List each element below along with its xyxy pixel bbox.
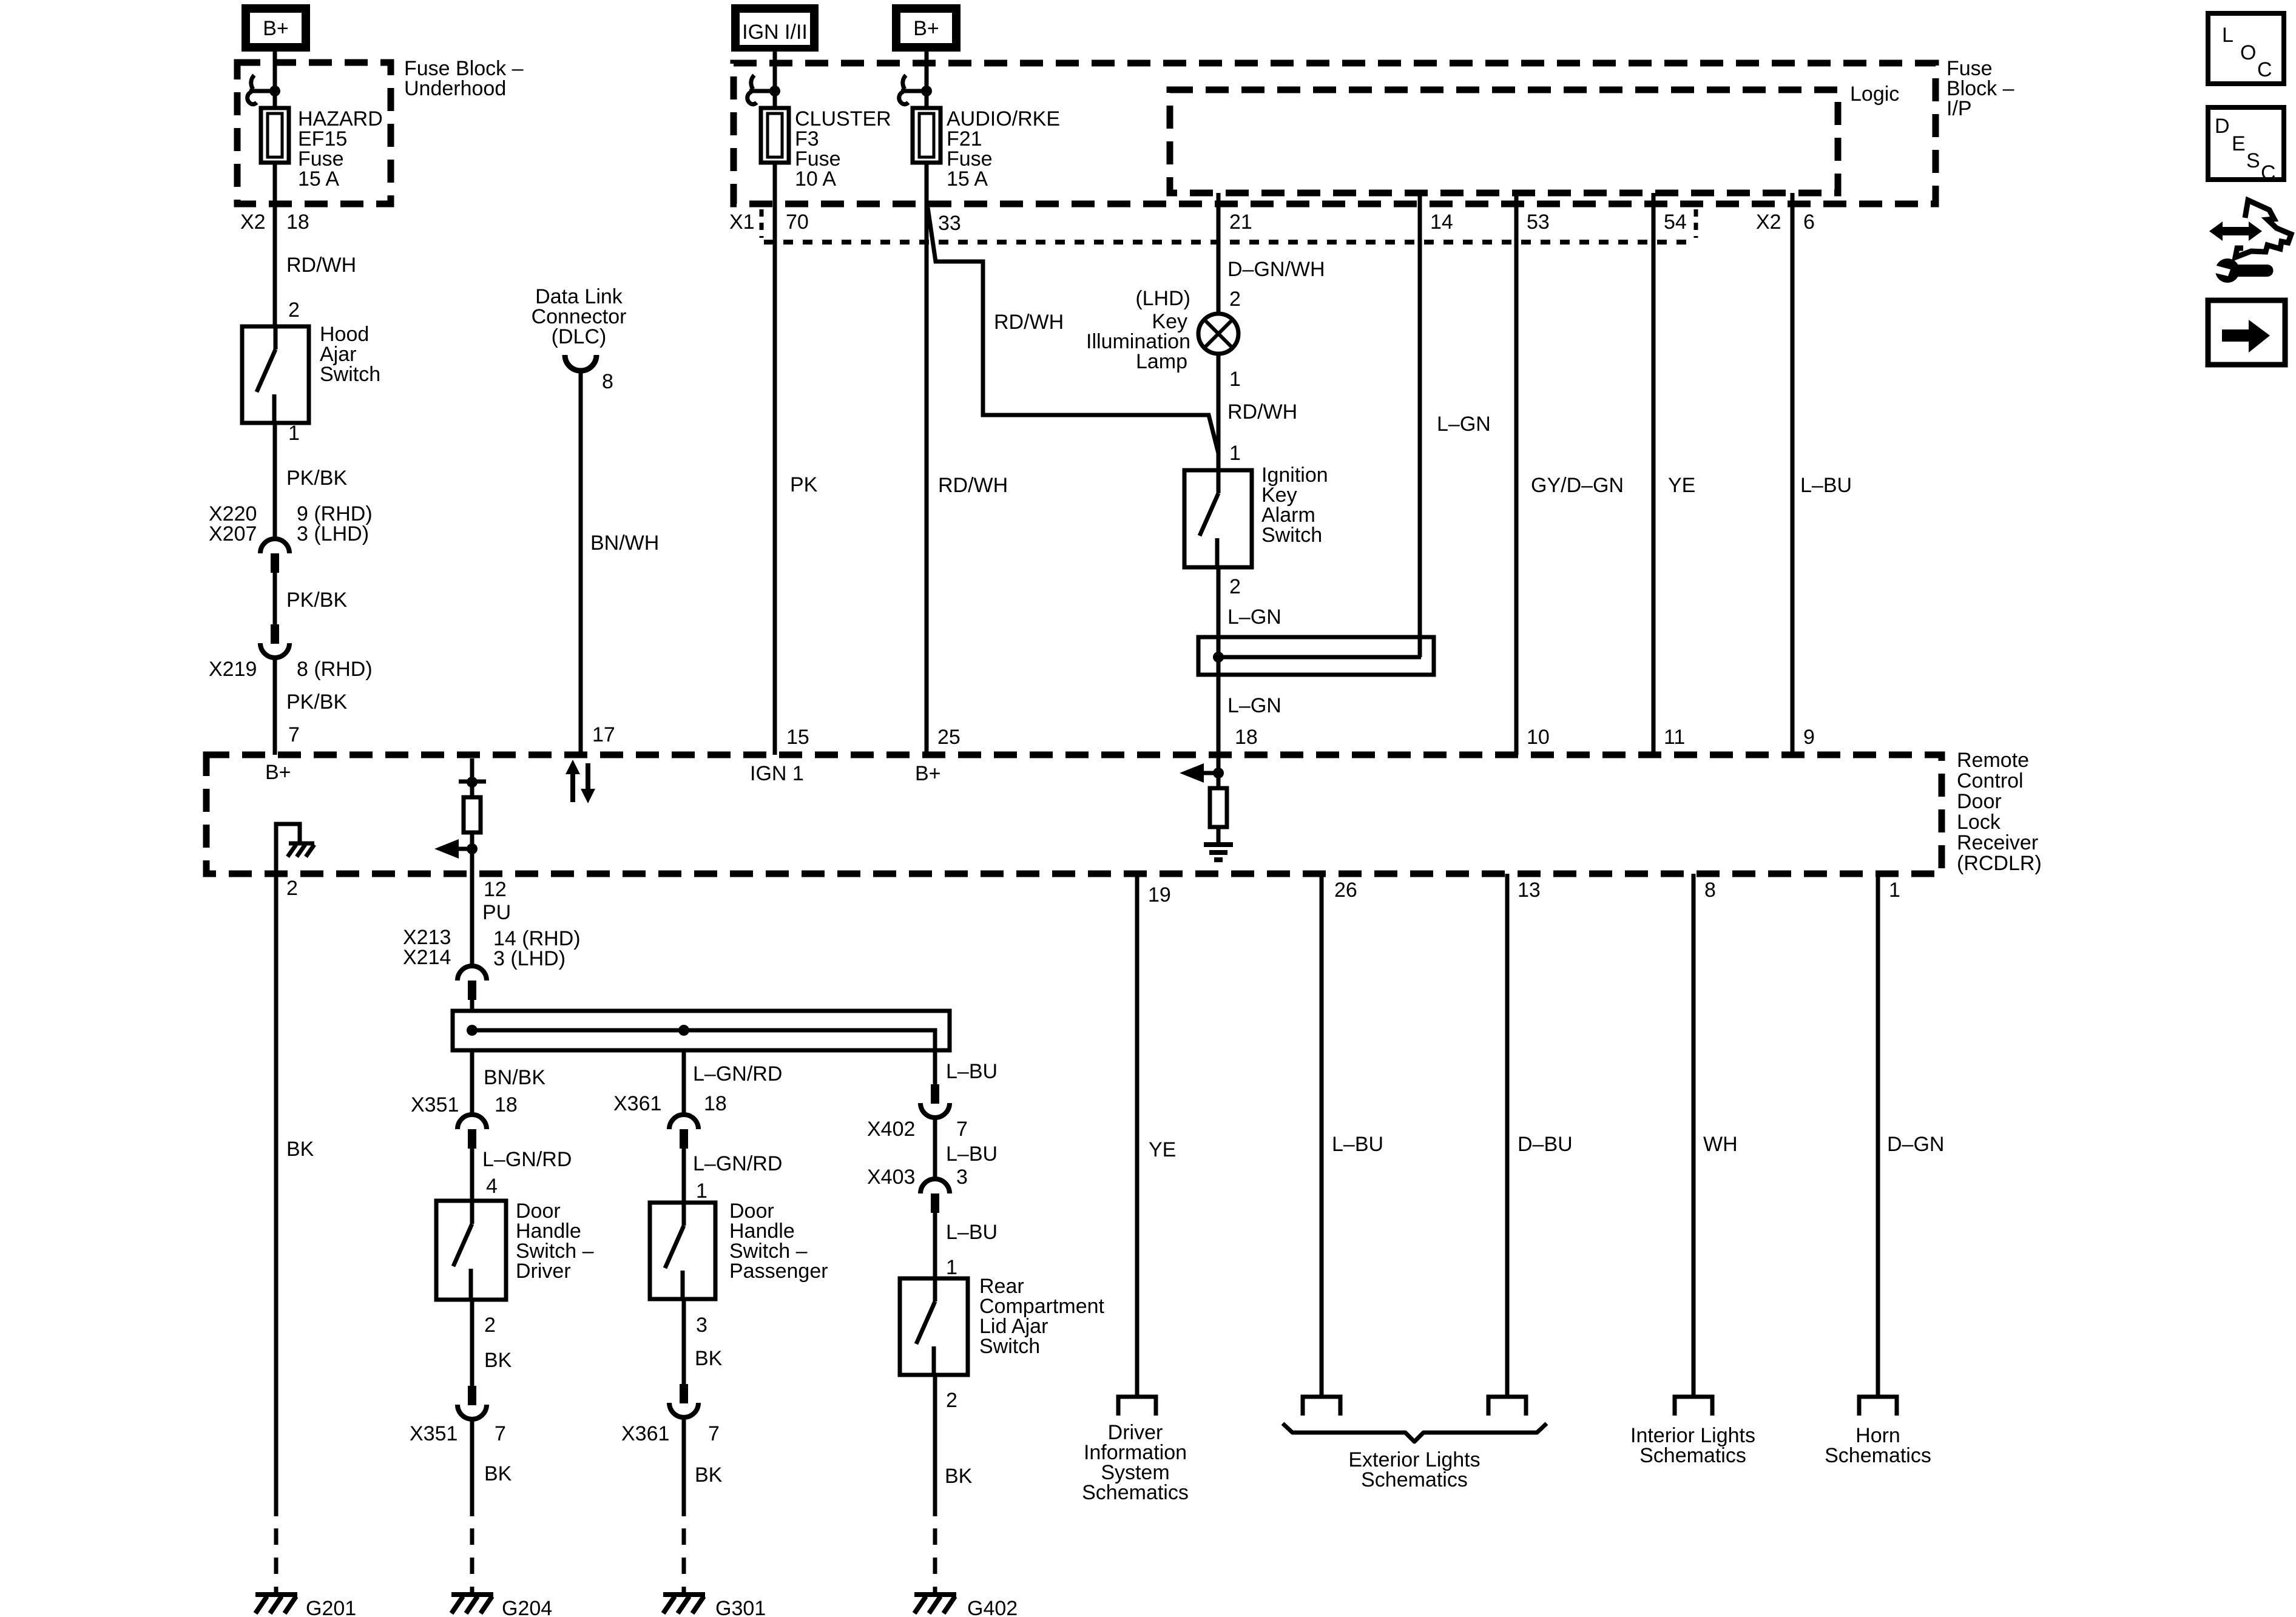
wire BN/BK: splice to X351 <box>470 1050 474 1115</box>
svg-text:2: 2 <box>288 299 300 322</box>
svg-text:12: 12 <box>484 878 507 901</box>
svg-text:GY/D–GN: GY/D–GN <box>1531 474 1624 497</box>
svg-text:X361: X361 <box>613 1092 661 1115</box>
svg-text:Schematics: Schematics <box>1825 1444 1931 1467</box>
svg-text:PK/BK: PK/BK <box>286 589 347 612</box>
svg-text:2: 2 <box>286 877 298 900</box>
RCDLR antenna stem (pin 12) <box>470 758 474 781</box>
svg-text:L–GN/RD: L–GN/RD <box>693 1062 782 1085</box>
svg-text:Switch: Switch <box>979 1335 1040 1358</box>
wire WH: pin 8 to interior lights <box>1692 874 1696 1397</box>
wire IGN I/II to cluster fuse <box>773 52 777 108</box>
svg-text:L–BU: L–BU <box>946 1221 998 1244</box>
svg-text:1: 1 <box>288 422 300 445</box>
svg-text:BN/BK: BN/BK <box>484 1066 545 1089</box>
node: splice junction dot <box>1213 652 1224 663</box>
Fuse Block - Underhood dashed box <box>237 62 391 204</box>
vehicle repair icon: wrench <box>2215 258 2240 283</box>
svg-text:3: 3 <box>696 1314 707 1337</box>
node: hazard feed junction dot <box>269 86 280 96</box>
wire L-BU to rear switch <box>933 1213 937 1278</box>
node: splice dot (passenger) <box>678 1025 689 1036</box>
svg-text:Remote: Remote <box>1957 749 2029 772</box>
wire YE: logic 54 to RCDLR pin 11 <box>1652 193 1656 755</box>
connector X351 pin 18 <box>458 1115 487 1129</box>
svg-text:18: 18 <box>1235 726 1258 749</box>
wire BK driver switch to X351-7 <box>470 1300 474 1386</box>
svg-text:RD/WH: RD/WH <box>938 474 1008 497</box>
Logic dashed box <box>1170 90 1838 193</box>
fuse clip wire <box>249 89 275 93</box>
svg-text:3: 3 <box>956 1166 968 1189</box>
wire RD/WH branch jog from fuse 33 <box>928 208 1218 453</box>
svg-text:Lamp: Lamp <box>1136 350 1187 373</box>
svg-text:25: 25 <box>937 726 961 749</box>
power feed IGN I/II box <box>731 4 819 52</box>
svg-text:10 A: 10 A <box>795 167 836 191</box>
svg-text:L–GN/RD: L–GN/RD <box>693 1152 782 1175</box>
svg-text:Driver: Driver <box>516 1260 571 1283</box>
svg-text:54: 54 <box>1664 211 1687 234</box>
svg-text:21: 21 <box>1229 211 1252 234</box>
next-page arrow box <box>2208 300 2285 365</box>
svg-text:BK: BK <box>484 1462 512 1485</box>
earth ground symbol (pin 18) <box>1204 842 1233 847</box>
svg-text:1: 1 <box>1229 442 1241 465</box>
svg-text:3 (LHD): 3 (LHD) <box>493 947 566 970</box>
svg-text:Schematics: Schematics <box>1361 1468 1468 1491</box>
lamp: key illumination lamp symbol <box>1198 314 1238 354</box>
connector X219 <box>271 624 279 644</box>
hood ajar switch <box>242 326 309 423</box>
fuse clip curl symbol (audio) <box>903 75 906 89</box>
svg-text:YE: YE <box>1149 1138 1176 1161</box>
svg-text:L–BU: L–BU <box>1800 474 1852 497</box>
svg-text:IGN 1: IGN 1 <box>750 762 804 785</box>
wire BN/WH: DLC to RCDLR pin 17 <box>579 371 583 755</box>
svg-text:53: 53 <box>1527 211 1550 234</box>
svg-text:G204: G204 <box>502 1597 552 1617</box>
svg-text:C: C <box>2257 58 2272 81</box>
wire L-GN/RD to driver switch <box>470 1149 474 1201</box>
vehicle repair icon: double arrow <box>2209 221 2262 241</box>
wire D-GN/WH: logic 21 to key illumination lamp <box>1217 193 1221 314</box>
wire resistor to pin 12 <box>470 832 474 874</box>
svg-text:X351: X351 <box>411 1093 459 1116</box>
svg-text:15 A: 15 A <box>298 167 339 191</box>
svg-text:S: S <box>2246 149 2260 172</box>
svg-text:7: 7 <box>708 1422 720 1445</box>
wire BK dashed to G301 <box>682 1528 686 1595</box>
ground G201 symbol <box>255 1592 297 1597</box>
door handle switch - driver <box>436 1201 506 1300</box>
wire to lower splice box <box>470 1000 474 1011</box>
svg-text:L–GN/RD: L–GN/RD <box>482 1148 572 1171</box>
svg-text:X403: X403 <box>867 1166 915 1189</box>
svg-text:L–GN: L–GN <box>1227 606 1281 629</box>
wire GY/D-GN: logic 53 to RCDLR pin 10 <box>1514 193 1519 755</box>
node: pin 18 dot <box>1213 768 1224 778</box>
wire L-BU: pin 26 to exterior lights <box>1320 874 1324 1397</box>
wire B+ to hazard fuse <box>273 52 277 108</box>
resistor (pin 12) <box>464 797 481 832</box>
svg-text:11: 11 <box>1664 726 1685 749</box>
splice bus wire <box>1217 655 1421 660</box>
wire resistor to ground <box>1217 827 1221 842</box>
serial data arrows (pin 17) <box>570 771 575 802</box>
fuse clip curl symbol <box>251 75 254 89</box>
svg-text:WH: WH <box>1703 1133 1738 1156</box>
connector X213/X214 <box>458 966 487 981</box>
svg-text:B+: B+ <box>913 17 939 40</box>
svg-text:(RCDLR): (RCDLR) <box>1957 852 2042 875</box>
svg-text:Schematics: Schematics <box>1639 1444 1746 1467</box>
wire L-BU between X402 X403 <box>933 1117 937 1180</box>
svg-text:X1: X1 <box>729 211 755 234</box>
DESC reference box <box>2208 107 2284 180</box>
wire BK dashed to G204 <box>470 1528 474 1595</box>
ground G204 symbol <box>451 1592 493 1597</box>
svg-text:D–BU: D–BU <box>1518 1133 1573 1156</box>
svg-text:18: 18 <box>286 211 309 234</box>
node: cluster feed junction dot <box>769 86 780 96</box>
wire L-GN: logic 14 down to splice <box>1418 193 1422 657</box>
svg-text:G201: G201 <box>306 1597 356 1617</box>
svg-text:(DLC): (DLC) <box>552 325 607 348</box>
svg-text:O: O <box>2240 41 2256 64</box>
svg-text:E: E <box>2232 132 2246 155</box>
svg-text:BN/WH: BN/WH <box>590 532 659 555</box>
svg-text:X207: X207 <box>209 522 257 545</box>
svg-text:Switch: Switch <box>1261 524 1322 547</box>
wire L-GN/RD to passenger switch <box>682 1149 686 1203</box>
svg-text:D: D <box>2215 115 2230 138</box>
splice box (L-GN) <box>1198 637 1434 675</box>
wire BK to G204 <box>470 1419 474 1516</box>
connector X403 <box>920 1179 950 1193</box>
svg-text:8 (RHD): 8 (RHD) <box>297 658 373 681</box>
wire antenna to resistor <box>470 781 474 797</box>
svg-text:B+: B+ <box>263 17 289 40</box>
terminal fork (pin 1) <box>1859 1397 1897 1416</box>
svg-text:X2: X2 <box>240 211 266 234</box>
wire PK/BK to RCDLR pin 7 <box>273 657 277 755</box>
DLC receptacle cup <box>565 355 596 371</box>
svg-text:C: C <box>2261 161 2276 184</box>
svg-text:BK: BK <box>484 1349 512 1372</box>
svg-text:L–BU: L–BU <box>1332 1133 1383 1156</box>
svg-text:Underhood: Underhood <box>404 77 506 100</box>
svg-text:7: 7 <box>956 1118 968 1141</box>
svg-text:Logic: Logic <box>1850 83 1899 106</box>
lower splice bus wire <box>472 1030 935 1050</box>
svg-text:17: 17 <box>592 723 615 746</box>
svg-text:26: 26 <box>1334 879 1357 902</box>
svg-text:2: 2 <box>484 1314 496 1337</box>
svg-text:8: 8 <box>602 370 613 393</box>
svg-text:G402: G402 <box>967 1597 1018 1617</box>
svg-text:Control: Control <box>1957 769 2024 792</box>
wire L-GN: switch to splice box <box>1217 567 1221 755</box>
wire RD/WH lamp to ignition key alarm switch <box>1217 354 1221 470</box>
terminal fork (pin 13) <box>1488 1397 1526 1416</box>
svg-text:RD/WH: RD/WH <box>286 254 356 277</box>
svg-text:D–GN: D–GN <box>1887 1133 1944 1156</box>
svg-text:4: 4 <box>486 1175 498 1198</box>
svg-text:L–GN: L–GN <box>1227 694 1281 717</box>
svg-text:X219: X219 <box>209 658 257 681</box>
wire BK to G301 <box>682 1417 686 1516</box>
svg-text:YE: YE <box>1668 474 1695 497</box>
svg-text:D–GN/WH: D–GN/WH <box>1227 258 1325 281</box>
svg-text:BK: BK <box>286 1138 314 1161</box>
fuse clip curl symbol (cluster) <box>751 75 754 89</box>
svg-text:X2: X2 <box>1756 211 1781 234</box>
vehicle repair icon: car outline <box>2235 200 2291 257</box>
svg-text:6: 6 <box>1803 211 1815 234</box>
svg-text:10: 10 <box>1527 726 1550 749</box>
fuse CLUSTER F3 10A <box>761 108 789 163</box>
svg-text:Receiver: Receiver <box>1957 831 2038 854</box>
node: splice dot (driver) <box>467 1025 478 1036</box>
terminal fork (pin 26) <box>1303 1397 1340 1416</box>
connector X361 pin 18 <box>669 1115 698 1129</box>
connector X1/X2 separator dash (right) <box>1694 209 1698 238</box>
connector X1 separator dash <box>760 209 764 238</box>
svg-text:L–BU: L–BU <box>946 1143 998 1166</box>
svg-text:19: 19 <box>1148 883 1171 906</box>
svg-text:L: L <box>2222 24 2234 47</box>
svg-text:7: 7 <box>495 1422 506 1445</box>
svg-text:1: 1 <box>1229 368 1241 391</box>
resistor (pin 18 pulldown) <box>1210 788 1227 827</box>
svg-text:BK: BK <box>695 1347 723 1370</box>
svg-text:B+: B+ <box>265 761 291 784</box>
svg-text:Switch: Switch <box>320 363 380 386</box>
wire L-BU: splice box to X402 <box>933 1050 937 1086</box>
svg-text:2: 2 <box>946 1389 957 1412</box>
node: pin 12 dot <box>467 843 478 854</box>
svg-text:1: 1 <box>946 1256 957 1279</box>
terminal fork (pin 8) <box>1675 1397 1712 1416</box>
connector X402 <box>931 1084 939 1104</box>
Remote Control Door Lock Receiver dashed box <box>206 755 1942 874</box>
svg-text:L–GN: L–GN <box>1437 413 1491 436</box>
svg-text:B+: B+ <box>915 762 941 785</box>
svg-text:X351: X351 <box>410 1422 458 1445</box>
wire B+ to audio/rke fuse <box>925 52 929 108</box>
wire BK: RCDLR pin 2 down <box>274 874 279 1516</box>
svg-text:(LHD): (LHD) <box>1135 287 1190 310</box>
svg-text:PK/BK: PK/BK <box>286 467 347 490</box>
svg-text:PK/BK: PK/BK <box>286 690 347 714</box>
svg-text:Lock: Lock <box>1957 811 2001 834</box>
ignition key alarm switch <box>1184 470 1252 567</box>
svg-text:7: 7 <box>288 723 300 746</box>
svg-text:3 (LHD): 3 (LHD) <box>297 522 369 545</box>
RCDLR pin 18 input arrow <box>1180 763 1204 783</box>
svg-text:PK: PK <box>790 473 818 496</box>
power feed B+ box (hazard) <box>241 4 310 52</box>
connector X351 pin 7 <box>468 1386 476 1405</box>
wire RD/WH: hazard fuse to hood ajar switch <box>273 163 277 326</box>
svg-text:8: 8 <box>1704 879 1716 902</box>
wire PK: cluster fuse to RCDLR pin 15 <box>773 163 777 755</box>
wire D-BU: pin 13 to exterior lights <box>1505 874 1510 1397</box>
wire PU: pin 12 to X213 <box>470 874 474 967</box>
svg-text:2: 2 <box>1229 575 1241 598</box>
svg-text:Passenger: Passenger <box>729 1260 828 1283</box>
wire L-GN/RD: splice to X361 <box>682 1050 686 1115</box>
svg-text:70: 70 <box>786 211 809 234</box>
Fuse Block - I/P dashed box <box>734 63 1936 204</box>
svg-text:X402: X402 <box>867 1118 915 1141</box>
wire PK/BK hood switch to X207 <box>273 423 277 539</box>
door handle switch - passenger <box>650 1203 715 1299</box>
svg-text:Schematics: Schematics <box>1082 1481 1189 1504</box>
svg-text:15: 15 <box>786 726 809 749</box>
svg-text:L–BU: L–BU <box>946 1060 998 1083</box>
svg-text:RD/WH: RD/WH <box>994 311 1064 334</box>
RCDLR internal chassis ground symbol <box>289 842 314 846</box>
power feed B+ box (audio/rke) <box>892 4 961 52</box>
ground G402 symbol <box>914 1592 956 1597</box>
svg-text:IGN I/II: IGN I/II <box>742 21 808 44</box>
svg-text:BK: BK <box>945 1465 973 1488</box>
wire BK dashed to G402 <box>933 1528 937 1595</box>
fuse AUDIO/RKE F21 15A <box>913 108 940 163</box>
svg-text:33: 33 <box>938 212 961 235</box>
fuse clip wire (cluster) <box>749 89 775 93</box>
svg-text:1: 1 <box>1889 879 1900 902</box>
wire PK/BK between connectors <box>273 573 277 624</box>
wire BK passenger switch to X361-7 <box>682 1299 686 1384</box>
brace exterior lights <box>1283 1423 1547 1442</box>
node: antenna dot <box>467 777 478 788</box>
wire RD/WH: audio fuse to RCDLR pin 25 <box>925 163 929 755</box>
fuse HAZARD EF15 15A <box>261 108 289 163</box>
svg-text:18: 18 <box>704 1092 727 1115</box>
svg-text:BK: BK <box>695 1463 723 1487</box>
svg-text:14: 14 <box>1430 211 1453 234</box>
wire YE: pin 19 to DIS schematics <box>1135 874 1140 1397</box>
lower splice box <box>453 1011 950 1050</box>
LOC reference box <box>2208 13 2284 84</box>
svg-text:I/P: I/P <box>1947 97 1972 120</box>
connector X361 pin 7 <box>680 1384 688 1403</box>
svg-text:2: 2 <box>1229 288 1241 311</box>
svg-text:18: 18 <box>495 1093 518 1116</box>
RCDLR pin 12 output arrow <box>434 839 459 859</box>
svg-text:X361: X361 <box>621 1422 669 1445</box>
svg-text:9: 9 <box>1803 726 1815 749</box>
terminal fork (pin 19) <box>1118 1397 1156 1416</box>
wire pin18 to pulldown resistor <box>1217 755 1221 788</box>
wire D-GN: pin 1 to horn <box>1876 874 1880 1397</box>
wire BK dashed to G201 <box>274 1528 279 1595</box>
node: audio feed junction dot <box>921 86 932 96</box>
fuse clip wire (audio) <box>901 89 927 93</box>
svg-text:X214: X214 <box>403 946 451 969</box>
svg-text:PU: PU <box>482 901 511 924</box>
svg-text:1: 1 <box>696 1180 707 1203</box>
svg-text:13: 13 <box>1518 879 1541 902</box>
RCDLR internal ground hook (pin 2) <box>276 824 300 874</box>
connector X220/X207 <box>260 539 289 553</box>
wire BK rear switch to G402 <box>933 1375 937 1516</box>
wire L-BU: logic 6 to RCDLR pin 9 <box>1791 193 1795 755</box>
rear compartment lid ajar switch <box>900 1278 968 1375</box>
ground G301 symbol <box>663 1592 705 1597</box>
svg-text:15 A: 15 A <box>947 167 988 191</box>
X1 connector dotted boundary line <box>764 240 1696 245</box>
svg-text:G301: G301 <box>715 1597 766 1617</box>
svg-text:Door: Door <box>1957 790 2002 813</box>
svg-text:RD/WH: RD/WH <box>1227 400 1297 424</box>
